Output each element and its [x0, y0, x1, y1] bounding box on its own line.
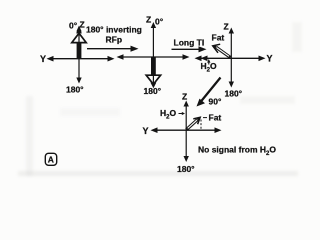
diagram 4: Z axis	[184, 101, 189, 131]
diagram 3: thin arrow down to 180 position	[229, 58, 234, 87]
svg-text:180° inverting: 180° inverting	[86, 25, 142, 35]
svg-text:A: A	[48, 155, 54, 165]
diagram 3: Y axis with double left arrowhead	[195, 56, 266, 62]
diagram 3: thick fat magnetization arrow up-left, outlined shaft, open head	[213, 44, 231, 57]
svg-text:Y: Y	[267, 54, 273, 64]
svg-text:180°: 180°	[66, 85, 84, 95]
svg-text:Z: Z	[146, 15, 151, 25]
diagram 1: Z axis	[76, 26, 81, 59]
diagram 4: dash to Fat label	[203, 117, 207, 119]
svg-text:Z: Z	[80, 20, 85, 30]
diagram 4: Y axis	[151, 127, 222, 133]
diagram 4: dashed projection line vertical	[200, 120, 202, 131]
diagram 4: thick fat magnetization arrow up-right, outlined shaft, open head	[186, 117, 200, 129]
svg-text:180°: 180°	[225, 89, 243, 99]
svg-text:90°: 90°	[209, 97, 222, 107]
diagram 2: Y axis	[117, 54, 190, 60]
diagram 2: Z axis	[151, 22, 156, 57]
transition arrow: RFp pulse	[87, 46, 139, 52]
transition arrow: 90 degree pulse diagonal	[197, 78, 221, 107]
transition arrow: Long TI delay	[172, 46, 207, 52]
svg-text:Long TI: Long TI	[174, 38, 205, 48]
svg-text:Z: Z	[224, 22, 229, 32]
diagram 1: thin arrow down to 180 position	[76, 59, 81, 84]
diagram 1: Y axis	[47, 56, 115, 62]
diagram 4: pointer line from H2O to Z axis	[179, 112, 186, 115]
svg-text:180°: 180°	[144, 86, 162, 96]
svg-text:Y: Y	[143, 126, 149, 136]
diagram 1: thick magnetization arrow up with hollow head	[72, 28, 86, 59]
diagram 3: small arrow from H2O to axis	[207, 59, 210, 65]
svg-text:Z: Z	[182, 92, 187, 102]
svg-text:0°: 0°	[69, 21, 78, 31]
svg-text:180°: 180°	[177, 164, 195, 174]
diagram 3: Z axis up	[229, 28, 234, 59]
svg-text:Fat: Fat	[209, 113, 222, 123]
svg-text:RFp: RFp	[106, 35, 123, 45]
svg-text:Fat: Fat	[212, 33, 225, 43]
diagram 2: thick inverted magnetization arrow down with hollow head	[146, 57, 160, 88]
panel label A box	[45, 153, 56, 165]
diagram 4: thin arrow down to 180 position	[184, 130, 189, 162]
svg-text:Y: Y	[40, 54, 46, 64]
svg-text:0°: 0°	[155, 17, 164, 27]
